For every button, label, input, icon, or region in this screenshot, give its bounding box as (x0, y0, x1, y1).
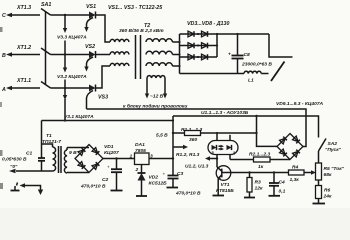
wire T1 feed (42, 119, 175, 121)
svg-text:B: B (2, 53, 6, 59)
arrow to R1.2 R1.3 (173, 145, 200, 158)
wire plus output (269, 34, 293, 57)
svg-text:U1.2, U1.3: U1.2, U1.3 (185, 164, 209, 170)
ground under R6 (313, 203, 326, 205)
svg-text:470,0*10 В: 470,0*10 В (80, 184, 106, 190)
rectifier right bus (216, 33, 218, 57)
diode V3.2 KC407A column arrow (57, 53, 87, 80)
svg-text:360 В/36 В 2,3 кВт: 360 В/36 В 2,3 кВт (119, 28, 164, 34)
svg-text:9 В: 9 В (69, 150, 77, 156)
switch SA1.2 (41, 48, 51, 55)
diode VD8 (197, 54, 208, 60)
svg-text:V3.1 КЦ407А: V3.1 КЦ407А (64, 114, 94, 120)
svg-text:DA1: DA1 (135, 142, 145, 148)
switch SA1 (41, 2, 51, 85)
svg-text:C3: C3 (177, 171, 184, 177)
diode V3.3 KC407A column arrow (57, 14, 87, 41)
svg-text:L1: L1 (248, 78, 254, 84)
diode V3.1 KC407A column arrow (63, 87, 94, 121)
svg-text:SA1: SA1 (41, 2, 51, 8)
T2 secondary winding 2 (146, 51, 180, 54)
svg-text:0,05*630 В: 0,05*630 В (2, 157, 27, 163)
svg-text:24к: 24к (323, 194, 332, 200)
T2 primary winding 3 (110, 63, 129, 66)
diode VD5 (180, 43, 218, 49)
T2 secondary winding 3 (146, 63, 180, 66)
svg-text:5,5 В: 5,5 В (156, 133, 168, 139)
resistor R3 (247, 171, 263, 197)
svg-text:360: 360 (189, 137, 197, 143)
svg-text:XT1.3: XT1.3 (16, 5, 31, 11)
bridge rectifier VD1 (75, 144, 119, 173)
svg-text:"Пуск": "Пуск" (325, 147, 342, 153)
svg-text:A: A (1, 87, 6, 93)
svg-text:VT1: VT1 (221, 182, 230, 188)
diode VD4 (197, 31, 208, 37)
wire VS1 cathode to T2 winding 1 (96, 15, 111, 42)
svg-text:VS1... VS3 - ТС122-25: VS1... VS3 - ТС122-25 (108, 5, 163, 11)
T1 secondary winding (64, 148, 67, 174)
terminal XT1.2 phase B (2, 45, 40, 59)
arrow to U1.2 U1.3 (185, 156, 218, 169)
svg-text:C1: C1 (26, 151, 33, 157)
wire phase C to VS1 (51, 14, 90, 16)
scan artifacts left edge (0, 27, 3, 32)
svg-text:XT1.1: XT1.1 (16, 78, 31, 84)
wire 5.5V node vertical (172, 116, 174, 175)
svg-text:23000,0*63 В: 23000,0*63 В (241, 62, 272, 68)
rectifier left bus (179, 34, 181, 74)
wire T1 secondary to VD1 (67, 147, 89, 149)
svg-text:+: + (107, 165, 110, 170)
wire column segment B-A (64, 80, 66, 89)
T2 primary winding 1 (110, 39, 129, 42)
ground under R3 (244, 197, 255, 199)
svg-text:C4: C4 (279, 180, 286, 186)
svg-text:1к: 1к (258, 164, 264, 170)
svg-text:R6: R6 (324, 188, 331, 194)
resistor R4 (289, 165, 317, 184)
T2 core (135, 35, 137, 79)
wire phase B to VS2 (51, 54, 90, 56)
diode VD3 (180, 31, 218, 37)
zener VD2 (138, 165, 168, 196)
thyristor VS3 (87, 85, 109, 110)
ground under C4 (269, 195, 281, 197)
wire VS3 cathode to T2 winding 3 (96, 66, 111, 88)
svg-text:C2: C2 (102, 177, 109, 183)
wire plus rail (217, 33, 269, 35)
capacitor C4 (269, 171, 286, 195)
svg-text:VD1: VD1 (104, 144, 114, 150)
wire VT1 base rail (231, 172, 289, 174)
svg-text:КС512Б: КС512Б (149, 181, 168, 187)
svg-text:C8: C8 (244, 52, 251, 58)
svg-text:68к: 68к (324, 172, 332, 178)
svg-text:R5 "Ток": R5 "Ток" (324, 166, 345, 172)
wire minus rail (180, 73, 245, 75)
terminal 0 neutral (9, 164, 42, 173)
wire gate control net A (87, 109, 307, 147)
svg-text:SA2: SA2 (328, 141, 338, 147)
svg-text:1,3к: 1,3к (290, 177, 300, 183)
switch SA1.3 (41, 82, 51, 89)
terminal XT1.1 phase A (1, 78, 40, 93)
svg-text:R1.2, R1.3: R1.2, R1.3 (176, 152, 200, 158)
thyristor VS2 (84, 44, 95, 72)
svg-text:V3.3 КЦ407А: V3.3 КЦ407А (57, 35, 87, 41)
svg-text:XT1.2: XT1.2 (16, 45, 31, 51)
svg-text:КТ815Б: КТ815Б (216, 188, 234, 194)
svg-text:+: + (228, 53, 231, 58)
ground under VT1 (213, 195, 225, 197)
ground under C2 (111, 190, 123, 192)
thyristor VS1 (84, 4, 96, 32)
wire R1.1 to optocoupler and VD9 (201, 133, 278, 146)
wire DA1 output 5.5V (149, 133, 174, 160)
T2 secondary winding 1 (146, 39, 180, 42)
ground under VD2 (136, 195, 147, 197)
terminal XT1.3 phase C (2, 5, 40, 19)
resistor R2.1 (230, 152, 290, 171)
switch SA2 (319, 139, 342, 154)
svg-text:+: + (163, 172, 166, 177)
T2 primary winding 2 (110, 52, 129, 55)
ground under C3 (167, 187, 179, 189)
capacitor C8 (228, 33, 272, 74)
wire 5.5V branch to VD9 (256, 116, 258, 133)
svg-text:VD3...VD8 - Д130: VD3...VD8 - Д130 (187, 21, 229, 27)
wire VS2 cathode to T2 winding 2 (96, 54, 111, 56)
svg-text:3: 3 (211, 151, 214, 157)
transistor VT1 (216, 159, 234, 196)
capacitor C3 (163, 171, 201, 197)
T1 core (58, 146, 60, 173)
svg-text:КЦ207: КЦ207 (104, 150, 119, 156)
svg-text:~12 В: ~12 В (150, 94, 164, 100)
capacitor C1 (2, 121, 45, 172)
capacitor C2 (80, 157, 122, 190)
wire VD1 output (103, 158, 135, 160)
resistor R6 (316, 180, 332, 203)
svg-text:V3.2 КЦ407А: V3.2 КЦ407А (57, 74, 87, 80)
diode VD7 (180, 54, 218, 60)
wire phase A to VS3 (51, 87, 90, 89)
svg-text:VS2: VS2 (85, 44, 95, 50)
svg-text:C: C (2, 13, 6, 19)
svg-text:Т1: Т1 (46, 133, 52, 139)
svg-text:1: 1 (130, 154, 133, 160)
T2 auxiliary winding 12V (145, 76, 167, 99)
svg-text:"0": "0" (10, 164, 18, 170)
diode VD6 (197, 43, 208, 49)
svg-text:R3: R3 (255, 180, 262, 186)
electrode gap (271, 62, 285, 82)
svg-text:VD9.1...9.3 - КЦ407А: VD9.1...9.3 - КЦ407А (276, 101, 324, 107)
T1 primary winding (42, 144, 56, 171)
svg-text:U1.1...1.3 - АОУ103Б: U1.1...1.3 - АОУ103Б (201, 110, 249, 116)
ground arrow wire (20, 183, 44, 195)
svg-text:12к: 12к (255, 186, 263, 192)
potentiometer R5 (316, 151, 345, 180)
svg-text:0,1: 0,1 (279, 189, 286, 195)
svg-text:VD2: VD2 (149, 175, 159, 181)
svg-text:1: 1 (233, 151, 236, 157)
svg-text:VS1: VS1 (86, 4, 96, 10)
resistor R1.1 (173, 127, 202, 143)
optocoupler U1.1 (208, 132, 238, 160)
inductor L1 (244, 71, 261, 83)
wire L1 to output (261, 73, 268, 75)
regulator DA1 7805 (130, 142, 154, 173)
wire column segment C-B (64, 41, 66, 55)
svg-text:VS3: VS3 (98, 95, 108, 101)
wire 5.5V net B (173, 116, 319, 138)
chassis ground mark (11, 183, 20, 191)
svg-text:470,0*10 В: 470,0*10 В (175, 191, 201, 197)
bridge rectifier VD9.1 (277, 134, 303, 160)
